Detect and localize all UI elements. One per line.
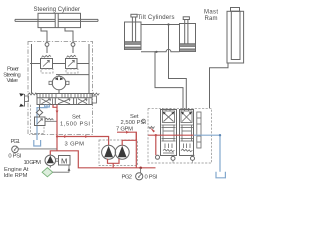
wire spool drain red — [155, 135, 157, 155]
valve section V1 — [161, 110, 177, 156]
wire mast line — [210, 63, 229, 108]
pilot box right — [92, 96, 97, 103]
node blue junction — [219, 134, 221, 136]
drain marks valve bottom — [171, 155, 195, 163]
wire port B down — [72, 46, 74, 53]
wire upper rail — [30, 63, 89, 65]
relief valve RV3 — [35, 117, 58, 126]
spring spool left — [28, 93, 37, 95]
svg-text:Ram: Ram — [205, 16, 218, 22]
check valve CV1 — [36, 105, 42, 118]
power steering valve enclosure — [28, 42, 93, 135]
svg-text:Set: Set — [130, 114, 139, 120]
label Power Steering Valve — [3, 67, 21, 84]
flow divider enclosure — [99, 140, 138, 166]
tilt cylinder 1 — [125, 14, 142, 49]
wire tank out blue — [194, 135, 221, 172]
svg-text:10 GPM: 10 GPM — [24, 160, 42, 166]
wire tilt rod line — [141, 24, 180, 26]
svg-text:0 PSI: 0 PSI — [145, 174, 158, 180]
label Mast Ram — [204, 10, 218, 22]
wire return blue — [37, 105, 47, 141]
port node E — [191, 156, 195, 160]
wire cylinder right port — [65, 28, 73, 43]
wire right rail — [88, 44, 90, 94]
wire line B — [169, 25, 187, 111]
wire line A — [155, 52, 183, 110]
node PG2 junction — [139, 167, 142, 170]
svg-text:1,500 PSI: 1,500 PSI — [60, 121, 90, 127]
valve top port ticks — [163, 108, 189, 111]
port hook red — [53, 105, 57, 108]
mast ram — [227, 8, 244, 64]
red flow arrow 3gpm a — [64, 135, 67, 138]
engine M — [56, 156, 70, 166]
wire divider right out red — [122, 132, 136, 145]
svg-text:Mast: Mast — [204, 10, 218, 16]
wire filter suction — [53, 165, 71, 172]
wire cylinder left port — [41, 28, 47, 43]
wire valve feed red — [148, 134, 193, 136]
node red supply junction — [56, 135, 58, 137]
port node A — [45, 43, 49, 47]
tilt cylinder 2 — [180, 17, 196, 52]
port hook blue — [45, 105, 50, 107]
wire 7 GPM red — [117, 132, 136, 168]
svg-text:0 PSI: 0 PSI — [8, 154, 21, 160]
wire left rail — [31, 44, 33, 94]
steering wheel input — [19, 93, 28, 107]
relief valve RV1 — [41, 55, 54, 73]
tank T2 — [216, 172, 225, 178]
svg-text:Valve: Valve — [7, 78, 19, 84]
svg-text:Set: Set — [72, 115, 81, 121]
wire steering supply red — [56, 105, 58, 151]
wire lower rail — [56, 74, 89, 76]
label Engine At Idle RPM — [4, 167, 29, 179]
steering control valve spool — [37, 94, 92, 105]
check valve CV2 — [149, 127, 156, 133]
pilot drain dashed — [31, 105, 45, 134]
relief column right — [197, 112, 201, 148]
port node D — [171, 156, 175, 160]
svg-text:Steering Cylinder: Steering Cylinder — [34, 7, 81, 13]
rotary metering unit — [49, 75, 69, 94]
gauge PG2 — [136, 168, 143, 180]
wire 3 GPM red — [57, 137, 109, 146]
wire pump case drain red — [108, 159, 120, 168]
svg-text:3 GPM: 3 GPM — [65, 141, 85, 147]
port node B — [71, 43, 75, 47]
svg-text:PG1: PG1 — [11, 139, 21, 145]
flow divider right section — [115, 145, 129, 159]
node tilt base junction — [155, 51, 157, 53]
pump P1 — [45, 155, 56, 166]
label Set 1500 PSI — [60, 115, 90, 128]
red flow arrow 7gpm — [126, 131, 129, 134]
node tilt rod junction — [167, 23, 169, 25]
wire pump supply red — [50, 151, 155, 168]
svg-text:Idle RPM: Idle RPM — [4, 173, 28, 179]
svg-text:PG2: PG2 — [122, 174, 133, 180]
label Set 2500 PSI 7 GPM — [116, 114, 146, 133]
steering cylinder — [15, 13, 98, 27]
wire tilt base line with hop — [141, 49, 180, 51]
gauge PG1 — [12, 146, 19, 153]
tank T1 — [34, 140, 41, 146]
wire port A down — [46, 46, 48, 53]
red flow arrow — [56, 111, 59, 114]
svg-text:Tilt Cylinders: Tilt Cylinders — [138, 15, 175, 21]
flow divider left section — [102, 145, 116, 159]
port node C — [156, 155, 160, 159]
relief valve RV2 — [66, 55, 79, 73]
filter F1 — [42, 166, 53, 177]
port node F — [142, 119, 146, 123]
node feed junction — [155, 134, 157, 136]
svg-text:M: M — [61, 156, 67, 165]
spring spool right — [92, 93, 99, 95]
wire gauge PG1 line — [18, 148, 57, 150]
svg-text:2,500 PSI: 2,500 PSI — [121, 120, 147, 126]
valve section V2 — [180, 110, 194, 156]
red flow arrow 3gpm b — [85, 135, 88, 138]
main control valve enclosure — [148, 108, 212, 163]
